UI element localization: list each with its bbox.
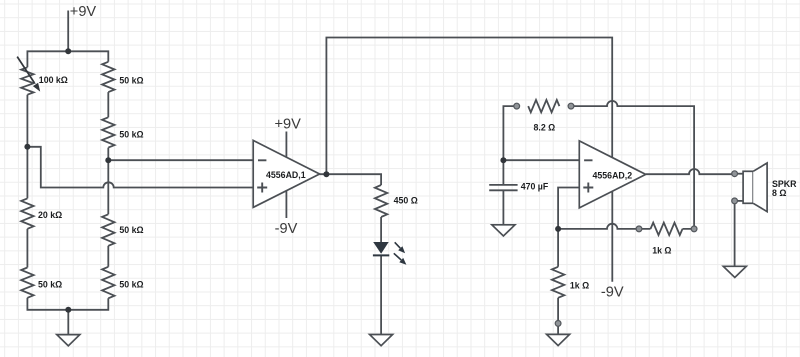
svg-text:-9V: -9V [601, 284, 624, 300]
svg-text:450 Ω: 450 Ω [394, 196, 418, 206]
svg-text:1k Ω: 1k Ω [570, 281, 589, 291]
svg-text:1k Ω: 1k Ω [652, 245, 671, 255]
svg-text:-9V: -9V [275, 221, 298, 237]
svg-text:20 kΩ: 20 kΩ [38, 210, 62, 220]
svg-text:100 kΩ: 100 kΩ [39, 75, 68, 85]
svg-text:50 kΩ: 50 kΩ [119, 225, 143, 235]
svg-text:4556AD,2: 4556AD,2 [593, 170, 633, 180]
svg-text:50 kΩ: 50 kΩ [38, 280, 62, 290]
svg-text:4556AD,1: 4556AD,1 [266, 170, 306, 180]
svg-text:8.2 Ω: 8.2 Ω [534, 122, 556, 132]
svg-text:50 kΩ: 50 kΩ [119, 76, 143, 86]
svg-text:50 kΩ: 50 kΩ [119, 280, 143, 290]
svg-text:470 µF: 470 µF [521, 182, 549, 192]
svg-text:50 kΩ: 50 kΩ [119, 130, 143, 140]
svg-text:8 Ω: 8 Ω [772, 188, 786, 198]
svg-text:+9V: +9V [70, 4, 97, 20]
svg-text:+9V: +9V [275, 117, 302, 133]
